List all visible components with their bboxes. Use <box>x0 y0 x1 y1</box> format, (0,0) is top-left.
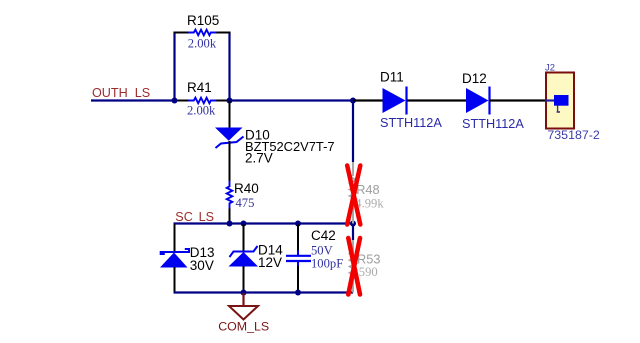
svg-text:STTH112A: STTH112A <box>380 116 442 130</box>
svg-text:2.00k: 2.00k <box>187 104 216 118</box>
svg-text:590: 590 <box>359 265 378 279</box>
junction node at 229,100 <box>227 98 233 104</box>
resistor R105 <box>174 13 231 51</box>
svg-text:R41: R41 <box>187 80 212 95</box>
resistor R41 <box>174 80 230 118</box>
junction node at 174,100 <box>172 98 178 104</box>
net label SC_LS <box>175 210 214 224</box>
DNP cross over R53 <box>348 238 360 295</box>
svg-text:4.99k: 4.99k <box>355 197 384 211</box>
svg-text:LS: LS <box>135 86 150 100</box>
svg-text:OUTH: OUTH <box>92 86 128 100</box>
svg-text:R48: R48 <box>356 182 379 197</box>
svg-text:D11: D11 <box>380 70 404 85</box>
junction node at 243,292 <box>241 290 247 296</box>
DNP cross over R48 <box>347 166 360 225</box>
wire R105 loop left vertical <box>173 32 175 101</box>
svg-text:2.7V: 2.7V <box>245 151 273 166</box>
capacitor C42 <box>286 224 343 293</box>
svg-text:STTH112A: STTH112A <box>462 117 524 131</box>
diode D12 <box>462 71 546 131</box>
junction node at 298,223 <box>295 221 301 227</box>
resistor R40 <box>227 181 259 224</box>
net label OUTH_LS <box>92 86 150 100</box>
wire R105 loop right vertical <box>228 32 230 101</box>
wire SC_LS rail <box>174 222 354 224</box>
svg-text:475: 475 <box>236 196 255 210</box>
svg-text:J2: J2 <box>545 63 555 74</box>
junction node at 243,223 <box>241 221 247 227</box>
wire bottom rail <box>174 291 354 293</box>
zener diode D10 <box>215 101 335 182</box>
svg-text:50V: 50V <box>311 243 333 257</box>
junction node at 229,223 <box>227 221 233 227</box>
svg-text:COM_LS: COM_LS <box>218 320 269 334</box>
junction node at 353,223 <box>350 221 356 227</box>
wire main rail to D11 <box>230 99 354 101</box>
wire R48 top <box>352 101 354 163</box>
zener diode D13 <box>160 224 215 293</box>
wire OUTH_LS rail <box>91 99 175 101</box>
svg-text:2.00k: 2.00k <box>188 37 217 51</box>
svg-text:D12: D12 <box>462 71 487 86</box>
resistor R48 (not fitted) <box>350 162 385 224</box>
svg-text:735187-2: 735187-2 <box>547 128 599 142</box>
svg-text:C42: C42 <box>311 228 336 243</box>
power port COM_LS <box>218 293 269 334</box>
diode D11 <box>353 70 466 131</box>
junction node at 298,292 <box>295 290 301 296</box>
zener diode D14 <box>229 224 284 293</box>
svg-text:30V: 30V <box>190 258 214 273</box>
svg-text:100pF: 100pF <box>311 257 343 271</box>
svg-text:12V: 12V <box>258 255 282 270</box>
resistor R53 (not fitted) <box>350 240 381 293</box>
svg-text:LS: LS <box>199 210 214 224</box>
junction node at 353,100 <box>350 98 356 104</box>
svg-text:R40: R40 <box>234 181 259 196</box>
svg-text:SC: SC <box>175 210 193 224</box>
wire R53 top <box>352 224 354 241</box>
svg-text:R105: R105 <box>187 13 219 28</box>
connector J2 <box>545 63 600 143</box>
